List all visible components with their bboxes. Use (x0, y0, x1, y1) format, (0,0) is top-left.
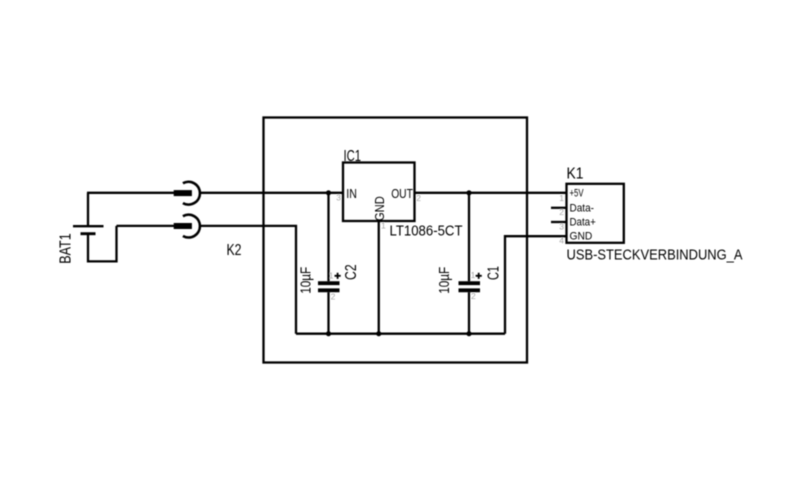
svg-text:K1: K1 (567, 165, 584, 182)
connector K2 lower plug socket arc (183, 215, 200, 238)
wire lower to plug (117, 225, 175, 227)
connector K2 upper plug socket arc (183, 182, 200, 205)
svg-text:IC1: IC1 (344, 148, 362, 165)
IC U1 box (343, 163, 415, 222)
junction dot C1 bottom (466, 331, 471, 336)
junction dot C2 bottom (326, 331, 331, 336)
wire OUT to K1 +5V (415, 192, 567, 194)
svg-text:2: 2 (559, 207, 564, 217)
wire V+ from plug to IC1 IN (200, 192, 343, 194)
capacitor C2 plates (318, 283, 340, 290)
svg-text:C1: C1 (486, 266, 503, 280)
wire battery minus loop (88, 226, 117, 262)
svg-text:IN: IN (346, 187, 357, 201)
connector K2 upper plug pin (174, 190, 192, 196)
C1 plus sign (476, 273, 482, 279)
junction dot IC1 GND (376, 331, 381, 336)
svg-text:1: 1 (329, 271, 334, 281)
svg-text:BAT1: BAT1 (58, 233, 75, 264)
capacitor C2 bottom wire (327, 292, 329, 334)
svg-text:LT1086-5CT: LT1086-5CT (390, 223, 463, 239)
capacitor C2 top wire (327, 193, 329, 281)
svg-text:3: 3 (559, 221, 564, 231)
svg-text:Data-: Data- (570, 202, 595, 214)
svg-text:1: 1 (559, 193, 564, 203)
svg-text:OUT: OUT (391, 187, 413, 201)
pin stub Data- (551, 207, 567, 209)
wire battery plus riser (87, 193, 89, 226)
svg-text:GND: GND (570, 231, 593, 243)
frame box (264, 118, 528, 363)
connector K2 lower plug pin (174, 223, 192, 229)
svg-text:3: 3 (336, 192, 341, 202)
svg-text:2: 2 (416, 193, 421, 203)
C2 plus sign (335, 273, 341, 279)
svg-text:10µF: 10µF (437, 267, 453, 294)
pin stub Data+ (551, 221, 567, 223)
junction dot C1 top (466, 190, 471, 195)
svg-text:C2: C2 (343, 264, 360, 280)
svg-text:1: 1 (471, 270, 476, 280)
svg-text:GND: GND (373, 196, 387, 221)
wire ground riser to K1 (505, 236, 567, 334)
svg-text:+5V: +5V (570, 188, 584, 200)
svg-text:2: 2 (331, 291, 336, 301)
wire top from battery to upper plug (87, 192, 174, 194)
wire return from plug to ground rail (200, 226, 296, 334)
svg-text:4: 4 (559, 236, 564, 246)
svg-text:1: 1 (381, 220, 386, 230)
connector K1 box (567, 184, 624, 243)
wire IC1 GND pin down (378, 221, 380, 334)
capacitor C1 plates (459, 283, 481, 290)
capacitor C1 top wire (468, 193, 470, 281)
svg-text:2: 2 (471, 291, 476, 301)
battery BAT1 (73, 226, 104, 234)
svg-text:10µF: 10µF (299, 267, 315, 294)
svg-text:Data+: Data+ (570, 217, 596, 229)
svg-text:K2: K2 (227, 242, 242, 259)
junction dot C2 top (326, 190, 331, 195)
wire ground rail (296, 333, 505, 335)
capacitor C1 bottom wire (468, 292, 470, 334)
svg-text:USB-STECKVERBINDUNG_A: USB-STECKVERBINDUNG_A (567, 247, 743, 263)
